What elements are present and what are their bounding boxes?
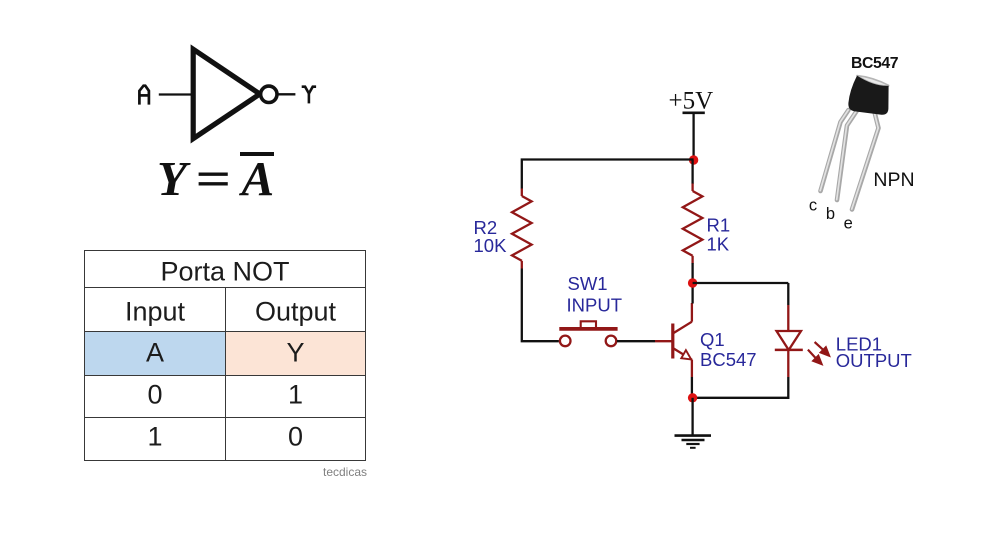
wire rail to R1 bbox=[691, 160, 693, 184]
wire +5V to junction bbox=[692, 113, 694, 160]
transistor package leg e bbox=[852, 112, 879, 210]
svg-text:Q1: Q1 bbox=[700, 329, 725, 350]
ground bbox=[675, 436, 712, 448]
LED LED1 bbox=[775, 305, 803, 377]
wire emitter to junction bbox=[691, 377, 693, 398]
wire output Y bbox=[277, 93, 295, 95]
wire collector to junction bbox=[691, 283, 693, 304]
svg-text:10K: 10K bbox=[474, 235, 508, 256]
wire R2 to switch bbox=[522, 269, 559, 342]
svg-text:+5V: +5V bbox=[669, 88, 714, 115]
wire input A bbox=[159, 93, 194, 95]
junction collector bbox=[688, 278, 697, 287]
svg-text:BC547: BC547 bbox=[851, 55, 899, 72]
NOT gate U1 triangle bbox=[193, 49, 260, 138]
svg-text:e: e bbox=[844, 215, 853, 233]
wire top rail bbox=[522, 160, 694, 189]
transistor Q1 bbox=[673, 303, 692, 377]
transistor package leg b bbox=[837, 109, 858, 200]
junction top rail bbox=[689, 155, 698, 164]
resistor R2 bbox=[512, 189, 532, 269]
wire LED branch upper bbox=[787, 283, 789, 305]
formula Y = NOT A bbox=[157, 150, 275, 207]
svg-text:b: b bbox=[826, 205, 835, 223]
resistor R1 bbox=[683, 183, 703, 264]
LED light arrows bbox=[808, 342, 829, 364]
wire R1 to collector junction bbox=[691, 263, 693, 283]
power rail bar bbox=[683, 112, 705, 115]
transistor package leg c bbox=[820, 110, 848, 191]
svg-text:SW1: SW1 bbox=[568, 273, 608, 294]
transistor package TO-92 body bbox=[848, 76, 888, 115]
svg-text:NPN: NPN bbox=[873, 169, 914, 191]
svg-text:BC547: BC547 bbox=[700, 349, 757, 370]
wire LED branch lower bbox=[693, 377, 789, 398]
junction emitter bbox=[688, 393, 697, 402]
svg-text:1K: 1K bbox=[707, 234, 730, 255]
svg-text:INPUT: INPUT bbox=[567, 294, 623, 315]
svg-text:c: c bbox=[809, 196, 817, 214]
node Y label bbox=[302, 87, 316, 104]
svg-text:R1: R1 bbox=[707, 215, 731, 236]
switch SW1 pushbutton bbox=[559, 321, 617, 346]
watermark tecdicas bbox=[323, 465, 367, 479]
truth table Porta NOT bbox=[84, 250, 366, 461]
svg-text:OUTPUT: OUTPUT bbox=[836, 350, 912, 371]
NOT gate inversion bubble bbox=[261, 86, 277, 102]
base lead bbox=[655, 340, 672, 342]
transistor package TO-92 top face bbox=[857, 76, 889, 86]
wire switch to base bbox=[617, 340, 655, 342]
wire collector rail to LED branch bbox=[693, 282, 789, 284]
wire emitter to ground bbox=[691, 398, 693, 435]
node A label bbox=[139, 86, 149, 105]
